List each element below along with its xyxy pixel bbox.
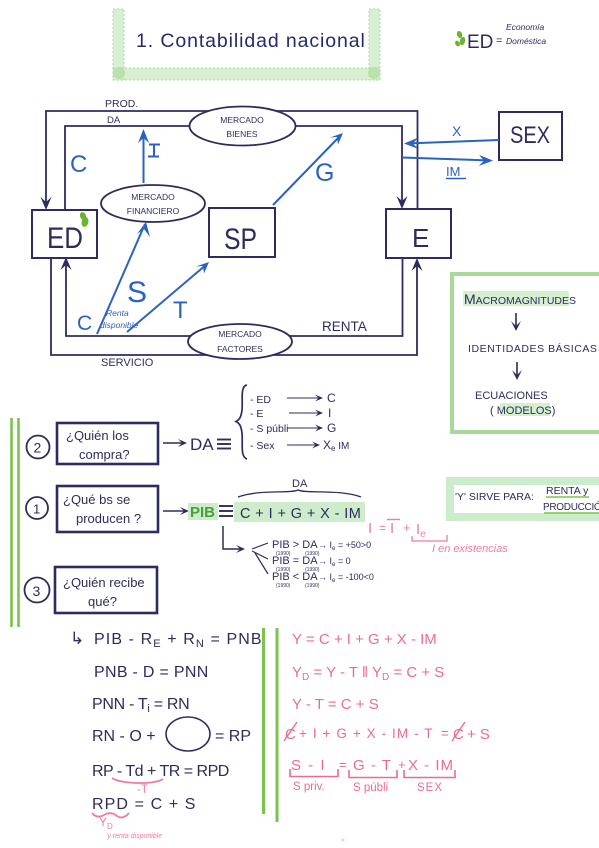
- box quien recibe que: [55, 567, 157, 613]
- C+I+G+X-IM highlighted: [234, 502, 365, 522]
- svg-text:G - T: G - T: [353, 757, 392, 774]
- box ED: [32, 210, 97, 258]
- svg-text:G: G: [315, 159, 334, 187]
- svg-text:=: =: [441, 726, 449, 741]
- list arrowheads: [312, 395, 323, 449]
- svg-text:RN - O +: RN - O +: [92, 728, 156, 745]
- svg-text:Y - T = C + S: Y - T = C + S: [292, 696, 379, 713]
- svg-text:ED: ED: [47, 222, 83, 255]
- blue flow arrows: [97, 132, 499, 334]
- svg-text:S - I: S - I: [291, 757, 326, 774]
- svg-text:PIB - RE + RN = PNB: PIB - RE + RN = PNB: [94, 631, 263, 650]
- svg-text:RPD = C + S: RPD = C + S: [92, 796, 197, 813]
- box quien los compra: [57, 423, 158, 464]
- arrowhead into E bottom (SERVICIO): [412, 258, 423, 271]
- ellipse MERCADO FACTORES: [188, 324, 292, 359]
- svg-text:X - IM: X - IM: [408, 757, 454, 774]
- svg-text:FACTORES: FACTORES: [217, 344, 263, 354]
- svg-text:1. Contabilidad nacional: 1. Contabilidad nacional: [136, 30, 366, 52]
- svg-text:qué?: qué?: [88, 594, 117, 609]
- svg-text:RENTA: RENTA: [322, 319, 367, 334]
- list arrows: [287, 398, 320, 445]
- svg-text:I: I: [328, 406, 331, 420]
- underbrackets: [290, 769, 455, 778]
- svg-text:'Y' SIRVE PARA:: 'Y' SIRVE PARA:: [455, 491, 534, 503]
- arrow G: [273, 135, 341, 205]
- svg-text:I en existencias: I en existencias: [432, 543, 508, 555]
- DA component list: [250, 394, 289, 452]
- svg-text:+: +: [398, 757, 406, 772]
- svg-text:PRODUCCIÓN: PRODUCCIÓN: [543, 500, 599, 513]
- svg-text:C: C: [285, 726, 296, 743]
- svg-text:S: S: [127, 276, 147, 309]
- svg-text:( MODELOS): ( MODELOS): [490, 405, 555, 417]
- svg-text:C + I + G + X - IM: C + I + G + X - IM: [240, 506, 361, 522]
- svg-text:MERCADO: MERCADO: [220, 115, 264, 125]
- svg-text:S públi: S públi: [353, 782, 388, 794]
- box que bs se producen: [57, 486, 158, 532]
- svg-text:I: I: [368, 520, 372, 537]
- svg-text:=: =: [496, 35, 502, 47]
- arrow to PIB: [163, 510, 186, 512]
- PIB comparison lines: [272, 539, 374, 589]
- svg-text:X: X: [452, 123, 462, 139]
- svg-text:= RP: = RP: [215, 728, 251, 745]
- svg-text:Doméstica: Doméstica: [506, 36, 546, 46]
- svg-text:Renta: Renta: [106, 308, 129, 318]
- left green double line: [10, 418, 13, 627]
- svg-text:(1990): (1990): [276, 583, 291, 589]
- svg-text:PIB > DA: PIB > DA: [272, 539, 318, 551]
- svg-text:DA: DA: [107, 115, 121, 126]
- middle green double line: [262, 628, 265, 814]
- svg-text:disponible: disponible: [100, 320, 139, 330]
- wire PROD outer loop: [46, 111, 418, 209]
- pink I = I + Ie: [368, 520, 508, 555]
- svg-text:IDENTIDADES BÁSICAS: IDENTIDADES BÁSICAS: [468, 342, 597, 355]
- svg-text:1: 1: [33, 502, 40, 517]
- list results C I G XeIM: [323, 391, 349, 453]
- ellipse MERCADO BIENES: [190, 107, 296, 146]
- svg-text:↳: ↳: [70, 629, 84, 648]
- svg-text:3: 3: [33, 583, 41, 599]
- circle 3: [25, 578, 50, 603]
- svg-text:Xe IM: Xe IM: [323, 438, 349, 453]
- svg-text:=: =: [339, 757, 347, 772]
- svg-text:MERCADO: MERCADO: [218, 329, 262, 339]
- svg-text:PIB = DA: PIB = DA: [272, 555, 318, 567]
- svg-text:PNN - Ti = RN: PNN - Ti = RN: [92, 696, 189, 715]
- arrow X: [406, 140, 499, 144]
- bottom-left equation list: [70, 629, 263, 813]
- wire DA inner loop: [65, 126, 402, 210]
- stray pink dot: [342, 839, 345, 842]
- svg-text:+ I + G + X - IM - T: + I + G + X - IM - T: [299, 726, 434, 741]
- svg-text:BIENES: BIENES: [226, 129, 258, 139]
- arrow I: [143, 132, 145, 183]
- svg-text:- E: - E: [250, 408, 263, 420]
- svg-text:¿Quién los: ¿Quién los: [66, 428, 129, 443]
- bottom-right pink equations: [285, 631, 490, 774]
- svg-text:C: C: [70, 151, 87, 178]
- MACROMAGNITUDES box: [452, 274, 599, 432]
- pink annotations bottom-left: [92, 778, 163, 817]
- svg-text:SEX: SEX: [510, 122, 550, 149]
- box SEX: [499, 112, 562, 160]
- svg-text:YD = Y - T ‖ YD = C + S: YD = Y - T ‖ YD = C + S: [292, 664, 444, 683]
- svg-text:+: +: [403, 520, 411, 535]
- wire SERVICIO outer bottom: [51, 258, 417, 355]
- circle blank: [166, 717, 210, 751]
- svg-text:S priv.: S priv.: [293, 781, 325, 793]
- svg-text:compra?: compra?: [79, 447, 130, 462]
- svg-text:'y renta disponible: 'y renta disponible: [106, 833, 162, 840]
- svg-text:+ S: + S: [467, 726, 490, 743]
- ellipse MERCADO FINANCIERO: [101, 185, 205, 222]
- arrow IM: [402, 158, 491, 161]
- clover in ED box: [79, 211, 90, 227]
- svg-text:ED: ED: [467, 32, 493, 53]
- svg-text:E: E: [412, 223, 429, 253]
- svg-text:RENTA y: RENTA y: [546, 485, 589, 497]
- branch lines: [252, 543, 268, 574]
- PIB green: [188, 503, 218, 520]
- DIAGRAM: [46, 111, 418, 355]
- svg-text:¿Quién recibe: ¿Quién recibe: [63, 575, 145, 590]
- svg-text:Y = C + I + G + X - IM: Y = C + I + G + X - IM: [292, 631, 437, 648]
- hook arrow below PIB: [223, 526, 241, 549]
- circle 2: [27, 436, 50, 459]
- svg-text:- ED: - ED: [250, 394, 271, 406]
- svg-text:- S públi: - S públi: [250, 423, 289, 435]
- svg-text:DA: DA: [190, 435, 214, 454]
- arrowhead into E top (DA): [397, 196, 408, 209]
- arrowhead into ED bottom (RENTA): [61, 257, 72, 270]
- svg-text:G: G: [327, 421, 336, 435]
- svg-text:SERVICIO: SERVICIO: [101, 357, 154, 369]
- arrow to DA: [163, 442, 184, 444]
- arrow S: [97, 224, 145, 334]
- arrowhead into ED top: [41, 197, 52, 210]
- svg-text:- Sex: - Sex: [250, 440, 275, 452]
- svg-text:producen ?: producen ?: [76, 511, 141, 526]
- svg-text:C: C: [77, 312, 92, 335]
- svg-text:2: 2: [34, 440, 42, 456]
- blue arrowheads: [137, 129, 493, 274]
- clover mark: [454, 30, 466, 47]
- svg-text:-T: -T: [137, 784, 148, 796]
- svg-text:Economía: Economía: [506, 22, 545, 32]
- arrow T: [127, 264, 207, 332]
- svg-text:PIB: PIB: [190, 504, 215, 521]
- svg-text:(1990): (1990): [305, 583, 320, 589]
- svg-text:FINANCIERO: FINANCIERO: [127, 206, 180, 216]
- svg-text:C: C: [327, 391, 336, 405]
- svg-text:PIB < DA: PIB < DA: [272, 571, 318, 583]
- svg-text:PROD.: PROD.: [105, 98, 138, 110]
- svg-text:=: =: [379, 521, 386, 535]
- svg-text:SEX: SEX: [417, 782, 443, 794]
- box SP: [209, 208, 275, 257]
- svg-text:ECUACIONES: ECUACIONES: [475, 390, 548, 402]
- slashes on C (crossed out): [284, 722, 297, 741]
- svg-text:DA: DA: [292, 478, 308, 490]
- svg-text:¿Qué bs se: ¿Qué bs se: [63, 492, 130, 507]
- svg-text:MERCADO: MERCADO: [131, 192, 175, 202]
- brace: [236, 385, 247, 459]
- svg-text:C: C: [453, 726, 464, 743]
- svg-text:SP: SP: [224, 223, 257, 256]
- svg-text:PNB - D = PNN: PNB - D = PNN: [94, 664, 209, 681]
- svg-text:IM: IM: [446, 164, 460, 179]
- box E: [386, 209, 451, 258]
- wire RENTA inner bottom: [66, 258, 403, 336]
- svg-text:T: T: [173, 297, 188, 324]
- Y sirve para box: [450, 481, 599, 517]
- svg-text:I: I: [390, 520, 394, 537]
- title highlight bracket: [113, 9, 380, 80]
- circle 1: [26, 497, 48, 519]
